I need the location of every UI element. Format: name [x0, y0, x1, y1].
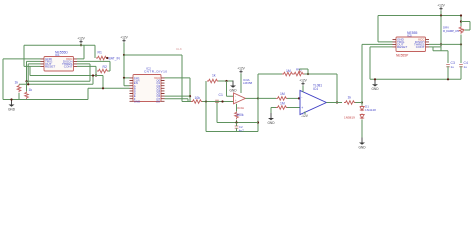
svg-text:+12V: +12V — [299, 79, 307, 83]
wire row97.5 to R8 — [258, 97, 276, 99]
wire R7 stubs — [236, 104, 238, 123]
junction x190 y97.5 — [189, 95, 191, 97]
svg-text:+12V: +12V — [237, 67, 245, 71]
label C2 name — [239, 125, 243, 129]
junction row101.5 x206 — [205, 100, 207, 102]
svg-text:RESET: RESET — [45, 65, 55, 69]
junction output x337 — [336, 101, 338, 103]
junction row75 x93 — [92, 74, 94, 76]
ground GND3 — [267, 113, 275, 125]
svg-text:CONT: CONT — [416, 45, 425, 49]
wire wiper loop — [461, 22, 470, 31]
power +12V symbol P5 — [437, 4, 445, 11]
label RP1 — [296, 68, 302, 72]
wire row 88.35 to IC2 pin — [88, 87, 130, 89]
label D2 value red — [344, 116, 355, 120]
trimmer wiper arrow — [463, 29, 465, 31]
label D1 value — [365, 108, 376, 112]
svg-text:+12V: +12V — [437, 4, 445, 8]
wire row 75.5 net — [30, 66, 103, 88]
capacitor C3 — [446, 61, 455, 67]
wire rail corner to trimmer — [460, 16, 462, 27]
svg-text:CLK: CLK — [176, 47, 182, 51]
svg-text:10k: 10k — [195, 96, 201, 100]
svg-text:C1: C1 — [219, 93, 223, 97]
wire x362 up to OUT pin — [362, 44, 393, 102]
power +12V symbol P3 — [237, 67, 245, 74]
wire opamp2 vcc pin — [302, 86, 304, 93]
wire ground rail bottom left — [3, 88, 88, 99]
wire L drop to IC2 row85 — [124, 78, 130, 86]
diode D2 zener — [360, 114, 364, 120]
junction x461 row44 — [460, 43, 462, 45]
wire x441 down — [433, 16, 448, 64]
resistor R7 vertical — [235, 111, 244, 119]
wire +12V stub to rail — [80, 44, 82, 46]
capacitor C4 — [459, 61, 468, 67]
wire CONT pin to R2 left end — [77, 66, 96, 71]
wire plus input wiring — [271, 108, 300, 114]
svg-text:LM358: LM358 — [243, 81, 253, 85]
wire rail y55 to x182 — [124, 54, 182, 56]
wire to GND4 — [361, 103, 363, 138]
wire P2 stub — [123, 43, 125, 56]
wire P5 stub — [440, 11, 442, 16]
svg-text:1u: 1u — [464, 65, 468, 69]
wire top rail VCC net — [24, 44, 95, 46]
label C4 value — [464, 65, 468, 69]
wire IC2 VCC row to x190 — [165, 78, 191, 102]
svg-text:4n7: 4n7 — [239, 128, 244, 132]
wire THRES pin loop row 81.3 — [27, 61, 91, 81]
wire R2 left end down to row75 — [95, 71, 97, 76]
svg-text:+12V: +12V — [120, 36, 128, 40]
capacitor C1 — [215, 93, 223, 103]
junction x441 row44 — [440, 43, 442, 45]
svg-text:1k: 1k — [212, 74, 216, 78]
junction minus node x299 — [298, 97, 300, 99]
power +12V symbol P1 — [77, 37, 85, 44]
junction R1 right node — [106, 57, 108, 59]
wire rail corner down to R1 — [94, 45, 96, 58]
wire CONT row47 — [429, 46, 441, 48]
junction wiper row74 — [307, 73, 309, 75]
wire opamp1 output — [245, 97, 258, 99]
svg-text:100k: 100k — [236, 113, 244, 117]
IC2 CD4017 decade counter — [130, 66, 168, 103]
net label DRV — [443, 26, 449, 30]
resistor R2 — [97, 65, 108, 73]
svg-text:-12V: -12V — [301, 114, 309, 118]
resistor R6 — [207, 74, 218, 83]
wire feedback x258 down — [206, 98, 258, 131]
svg-text:GND: GND — [371, 87, 379, 91]
svg-text:GND: GND — [358, 145, 366, 149]
svg-text:GND: GND — [8, 107, 16, 111]
wire DISCH pin to R2 right end — [77, 61, 110, 71]
resistor R9 — [276, 102, 288, 110]
svg-text:R_DAMP_UN: R_DAMP_UN — [443, 29, 459, 33]
junction IC2 feed — [123, 77, 125, 79]
wire gnd rail y79 — [370, 78, 461, 80]
wire opamp2 out — [326, 102, 337, 104]
junction GND5 tap — [374, 78, 376, 80]
resistor R11 feedback — [282, 69, 294, 76]
wire P3 stub to op-amp V+ — [240, 74, 242, 94]
label C2 value — [239, 128, 244, 132]
wire C2 stubs — [236, 123, 238, 132]
svg-text:R2: R2 — [103, 65, 107, 69]
svg-text:GND: GND — [229, 88, 237, 92]
wire row101.5 mid — [202, 101, 233, 103]
wire R8 to minus in — [287, 97, 300, 99]
svg-text:1M: 1M — [280, 92, 285, 96]
wire VCC pin of IC1 to rail — [77, 45, 84, 59]
wire OUT pin loop row 84.3 — [19, 64, 93, 84]
junction +12V on rail — [80, 44, 82, 46]
resistor R1 — [96, 51, 107, 60]
wire row74 to x337 — [305, 74, 338, 103]
wire x461 down to C3 — [460, 44, 462, 63]
junction R2 row75 — [95, 74, 97, 76]
svg-text:CNTR_DIV10: CNTR_DIV10 — [144, 69, 167, 73]
resistor R5 — [191, 96, 202, 103]
wire x206 vertical full — [205, 81, 207, 132]
junction C3 gnd — [447, 78, 449, 80]
wire bottom row101.5 left — [182, 101, 191, 103]
wire wiper loop — [300, 69, 308, 74]
wire R10 to x362 — [355, 102, 362, 104]
junction R7 C2 row122 — [235, 121, 237, 123]
wire GND pin row to left rail — [3, 59, 41, 100]
resistor R10 — [344, 96, 356, 105]
ground GND5 — [371, 79, 379, 91]
junction output node x258 — [257, 97, 259, 99]
wire rail to RESET pin of IC1 — [24, 45, 41, 66]
junction row88 x103 — [102, 87, 104, 89]
svg-text:1k: 1k — [29, 88, 33, 92]
svg-text:R1: R1 — [98, 51, 102, 55]
net label BAT_IN — [109, 56, 121, 60]
junction out x362 — [361, 101, 363, 103]
junction x258 y122 — [257, 121, 259, 123]
wire trimmer bottom to row44 — [460, 35, 462, 45]
wire out row102.5 — [337, 102, 342, 104]
svg-text:IC4: IC4 — [313, 87, 318, 91]
ground GND4 — [358, 138, 366, 150]
wire R4 top stub — [26, 81, 28, 91]
label C3 value — [451, 65, 455, 69]
junction P5 rail — [440, 14, 442, 16]
op-amp IC3A — [234, 93, 246, 110]
wire IC2 Q row97.5 — [165, 95, 191, 97]
svg-text:1N4148: 1N4148 — [365, 108, 376, 112]
svg-text:1k: 1k — [348, 96, 352, 100]
wire x182 vertical — [181, 55, 183, 102]
svg-text:GND: GND — [134, 99, 140, 103]
power +12V symbol P2 — [120, 36, 128, 43]
net label R_DAMP_UNIT — [443, 29, 459, 33]
junction trimmer top — [460, 20, 462, 22]
capacitor C2 — [235, 126, 239, 128]
wire feedback row74 up from output node — [258, 74, 282, 98]
svg-text:+: + — [235, 99, 237, 103]
junction rail corner — [460, 14, 462, 16]
IC5 NE555 right — [393, 31, 430, 58]
svg-text:IC3A: IC3A — [237, 106, 245, 110]
svg-text:-: - — [301, 96, 302, 100]
svg-text:NE555P: NE555P — [396, 54, 409, 58]
svg-text:1M: 1M — [286, 69, 291, 73]
resistor R4 vertical — [25, 88, 33, 99]
svg-text:1u: 1u — [451, 65, 455, 69]
wire C4 bottom — [460, 66, 462, 79]
wire top rail right — [378, 16, 461, 42]
svg-text:GND: GND — [267, 121, 275, 125]
op-amp IC4 TL081 — [300, 84, 326, 115]
net label near corner — [176, 47, 182, 51]
diode D1 — [360, 106, 364, 112]
wire opamp2 vee pin — [304, 112, 306, 115]
power -12V label — [301, 114, 309, 118]
svg-text:-: - — [235, 94, 236, 98]
svg-text:+12V: +12V — [77, 37, 85, 41]
junction row101.5 x222 — [221, 100, 223, 102]
label IC3A blue — [243, 78, 250, 82]
svg-text:1M: 1M — [280, 102, 285, 106]
resistor R3 vertical — [15, 80, 21, 92]
wire row81 right of R6 — [218, 80, 233, 82]
svg-text:1k: 1k — [15, 80, 19, 84]
wire x226.5 to minus input — [227, 81, 234, 96]
power +12V symbol P4 — [299, 79, 307, 86]
svg-text:BAT_IN: BAT_IN — [109, 56, 121, 60]
svg-text:IC1: IC1 — [55, 53, 60, 57]
wire C1 bottom loop — [216, 103, 218, 123]
trimmer RP1 horizontal — [293, 70, 304, 75]
junction OUT row tie — [27, 83, 29, 85]
svg-text:1N5819: 1N5819 — [344, 116, 355, 120]
svg-text:CO: CO — [156, 99, 161, 103]
wire IC2 Q row99.7 — [165, 99, 191, 102]
ground GND2 (op-amp ref) — [229, 81, 237, 93]
wire P2 down to IC2 CLK — [124, 55, 130, 78]
svg-text:IC5: IC5 — [407, 33, 412, 37]
junction row81 x226.5 — [225, 80, 227, 82]
wire THRES row44 to x461 — [429, 43, 461, 45]
svg-text:+: + — [301, 106, 303, 110]
wire C3 bottom — [447, 66, 449, 79]
junction GND1 tap — [10, 98, 12, 100]
label D1 name — [365, 105, 369, 109]
junction TRIG-THRES tie — [25, 80, 27, 82]
wire x370 RESET to gnd rail — [370, 47, 393, 79]
resistor R8 — [276, 92, 288, 100]
IC1 NE555 timer — [41, 50, 78, 71]
svg-text:CONT: CONT — [64, 65, 73, 69]
wire R3 bottom stub — [18, 93, 20, 100]
resistor RP2 R_DAMP trimmer — [459, 26, 463, 34]
junction P2 rail tap — [123, 54, 125, 56]
svg-text:RESET: RESET — [397, 45, 407, 49]
label LM358 blue — [243, 81, 253, 85]
wire row122 — [217, 122, 258, 124]
ground GND1 — [8, 100, 16, 112]
